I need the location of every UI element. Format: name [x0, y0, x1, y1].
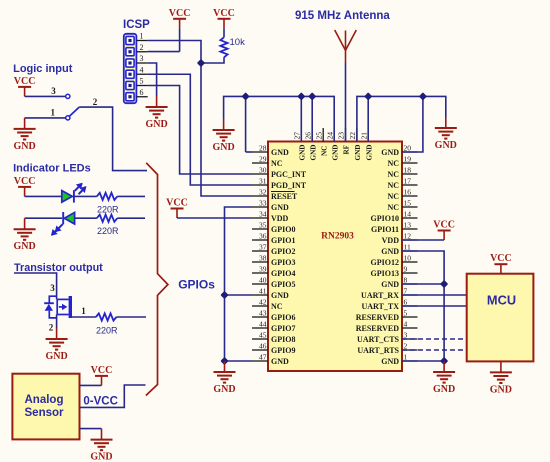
svg-text:GND: GND — [45, 351, 67, 362]
svg-text:GND: GND — [381, 148, 399, 157]
svg-text:GND: GND — [435, 140, 457, 151]
svg-text:1: 1 — [140, 32, 144, 41]
svg-text:1: 1 — [404, 353, 408, 362]
svg-text:22: 22 — [348, 132, 357, 140]
svg-text:GPIO8: GPIO8 — [271, 335, 295, 344]
svg-text:4: 4 — [140, 65, 144, 74]
svg-text:8: 8 — [404, 276, 408, 285]
svg-text:NC: NC — [387, 192, 399, 201]
svg-text:GND: GND — [145, 119, 167, 130]
svg-text:NC: NC — [320, 146, 328, 156]
svg-text:2: 2 — [49, 322, 54, 332]
svg-text:24: 24 — [325, 132, 334, 140]
svg-text:GPIO9: GPIO9 — [271, 346, 295, 355]
svg-text:5: 5 — [140, 77, 144, 86]
svg-text:GND: GND — [365, 145, 373, 161]
svg-text:0-VCC: 0-VCC — [83, 396, 118, 408]
svg-text:21: 21 — [359, 132, 368, 140]
svg-text:36: 36 — [259, 232, 267, 241]
svg-text:ICSP: ICSP — [123, 19, 150, 31]
svg-text:GPIO12: GPIO12 — [371, 258, 399, 267]
svg-text:47: 47 — [259, 353, 267, 362]
svg-text:VCC: VCC — [490, 253, 512, 264]
svg-text:GPIO4: GPIO4 — [271, 269, 295, 278]
svg-text:2: 2 — [404, 342, 408, 351]
svg-text:26: 26 — [303, 132, 312, 140]
svg-text:7: 7 — [404, 287, 408, 296]
svg-text:NC: NC — [387, 203, 399, 212]
svg-text:NC: NC — [271, 159, 283, 168]
svg-text:39: 39 — [259, 265, 267, 274]
svg-text:PGC_INT: PGC_INT — [271, 170, 307, 179]
svg-text:GND: GND — [271, 357, 289, 366]
svg-text:27: 27 — [293, 132, 302, 140]
svg-text:NC: NC — [387, 170, 399, 179]
svg-text:33: 33 — [259, 199, 267, 208]
svg-text:Transistor output: Transistor output — [14, 262, 103, 274]
svg-text:GND: GND — [299, 145, 307, 161]
svg-text:16: 16 — [404, 188, 412, 197]
svg-text:6: 6 — [140, 88, 144, 97]
svg-text:VCC: VCC — [91, 365, 113, 376]
svg-text:GND: GND — [331, 145, 339, 161]
svg-text:6: 6 — [404, 298, 408, 307]
svg-text:GND: GND — [13, 241, 35, 252]
svg-text:GND: GND — [271, 148, 289, 157]
svg-text:RESERVED: RESERVED — [356, 324, 400, 333]
svg-text:10: 10 — [404, 254, 412, 263]
svg-text:220R: 220R — [97, 226, 119, 236]
svg-text:17: 17 — [404, 177, 412, 186]
svg-text:VCC: VCC — [14, 176, 36, 187]
svg-text:3: 3 — [50, 283, 55, 293]
svg-text:5: 5 — [404, 309, 408, 318]
svg-text:3: 3 — [404, 331, 408, 340]
svg-text:UART_CTS: UART_CTS — [357, 335, 400, 344]
svg-text:1: 1 — [81, 306, 86, 316]
svg-text:2: 2 — [93, 97, 98, 107]
svg-text:GND: GND — [381, 357, 399, 366]
svg-text:13: 13 — [404, 221, 412, 230]
svg-text:VDD: VDD — [271, 214, 289, 223]
svg-text:20: 20 — [404, 144, 412, 153]
svg-text:GND: GND — [381, 280, 399, 289]
svg-text:42: 42 — [259, 298, 267, 307]
svg-text:25: 25 — [314, 132, 323, 140]
svg-text:GND: GND — [433, 384, 455, 395]
svg-text:UART_TX: UART_TX — [362, 302, 400, 311]
svg-text:GND: GND — [490, 384, 512, 395]
svg-text:NC: NC — [387, 181, 399, 190]
svg-text:GND: GND — [354, 145, 362, 161]
svg-text:40: 40 — [259, 276, 267, 285]
svg-text:NC: NC — [387, 159, 399, 168]
svg-text:10k: 10k — [230, 37, 246, 48]
svg-text:VDD: VDD — [382, 236, 400, 245]
svg-text:GND: GND — [13, 141, 35, 152]
svg-text:GND: GND — [90, 452, 112, 462]
svg-text:915 MHz Antenna: 915 MHz Antenna — [295, 10, 390, 22]
svg-text:3: 3 — [140, 54, 144, 63]
svg-text:GPIOs: GPIOs — [178, 278, 215, 292]
svg-text:18: 18 — [404, 166, 412, 175]
svg-text:11: 11 — [404, 243, 411, 252]
svg-text:MCU: MCU — [487, 293, 516, 308]
svg-text:GPIO1: GPIO1 — [271, 236, 295, 245]
svg-text:RN2903: RN2903 — [321, 231, 354, 241]
svg-text:23: 23 — [337, 132, 346, 140]
svg-text:37: 37 — [259, 243, 267, 252]
svg-text:3: 3 — [51, 86, 56, 96]
svg-text:19: 19 — [404, 155, 412, 164]
svg-text:VCC: VCC — [213, 8, 235, 19]
svg-text:GPIO10: GPIO10 — [371, 214, 399, 223]
svg-text:15: 15 — [404, 199, 412, 208]
svg-text:14: 14 — [404, 210, 412, 219]
svg-text:VCC: VCC — [169, 8, 191, 19]
svg-text:RF: RF — [343, 144, 351, 154]
svg-text:GPIO0: GPIO0 — [271, 225, 295, 234]
svg-text:220R: 220R — [96, 325, 118, 335]
svg-text:GND: GND — [381, 247, 399, 256]
svg-text:46: 46 — [259, 342, 267, 351]
svg-text:35: 35 — [259, 221, 267, 230]
svg-text:RESERVED: RESERVED — [356, 313, 400, 322]
svg-text:43: 43 — [259, 309, 267, 318]
svg-text:GPIO13: GPIO13 — [371, 269, 399, 278]
svg-text:GND: GND — [271, 203, 289, 212]
svg-text:9: 9 — [404, 265, 408, 274]
svg-text:2: 2 — [140, 43, 144, 52]
svg-text:GPIO11: GPIO11 — [371, 225, 399, 234]
svg-text:1: 1 — [50, 107, 55, 117]
svg-text:UART_RTS: UART_RTS — [357, 346, 399, 355]
svg-text:GPIO6: GPIO6 — [271, 313, 295, 322]
svg-text:GPIO3: GPIO3 — [271, 258, 295, 267]
svg-text:32: 32 — [259, 188, 267, 197]
svg-text:41: 41 — [259, 287, 267, 296]
svg-text:Logic input: Logic input — [13, 63, 73, 75]
svg-text:29: 29 — [259, 155, 267, 164]
svg-text:VCC: VCC — [14, 76, 36, 87]
svg-text:30: 30 — [259, 166, 267, 175]
svg-text:VCC: VCC — [433, 220, 455, 231]
svg-text:28: 28 — [259, 144, 267, 153]
svg-text:Analog: Analog — [25, 394, 64, 406]
svg-text:GPIO5: GPIO5 — [271, 280, 295, 289]
svg-text:UART_RX: UART_RX — [361, 291, 399, 300]
svg-text:4: 4 — [404, 320, 408, 329]
svg-text:45: 45 — [259, 331, 267, 340]
svg-text:12: 12 — [404, 232, 412, 241]
svg-text:Sensor: Sensor — [25, 407, 65, 419]
svg-text:38: 38 — [259, 254, 267, 263]
svg-text:RESET: RESET — [271, 192, 298, 201]
svg-text:31: 31 — [259, 177, 267, 186]
svg-text:GPIO7: GPIO7 — [271, 324, 295, 333]
svg-text:220R: 220R — [97, 204, 119, 214]
svg-text:GND: GND — [309, 145, 317, 161]
svg-text:GPIO2: GPIO2 — [271, 247, 295, 256]
svg-text:Indicator LEDs: Indicator LEDs — [13, 162, 91, 174]
svg-text:GND: GND — [213, 384, 235, 395]
svg-text:34: 34 — [259, 210, 267, 219]
svg-text:GND: GND — [271, 291, 289, 300]
svg-text:PGD_INT: PGD_INT — [271, 181, 307, 190]
svg-text:GND: GND — [212, 142, 234, 153]
svg-text:NC: NC — [271, 302, 283, 311]
svg-text:VCC: VCC — [166, 198, 188, 209]
svg-text:44: 44 — [259, 320, 267, 329]
